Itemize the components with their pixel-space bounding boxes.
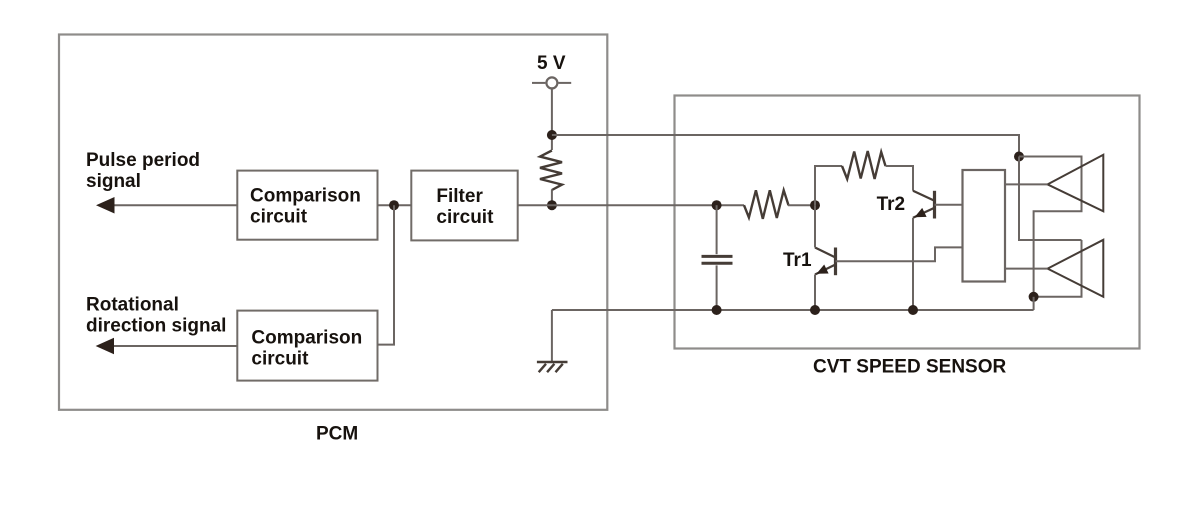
arrowhead rotational direction signal bbox=[96, 338, 114, 354]
CVT SPEED SENSOR box bbox=[675, 96, 1140, 349]
resistor R1 pull-up bbox=[540, 151, 562, 191]
node: lower right junction bbox=[1029, 292, 1039, 302]
ground bbox=[537, 362, 568, 372]
svg-text:circuit: circuit bbox=[251, 349, 309, 370]
capacitor C1 plate bottom bbox=[702, 262, 733, 265]
wire: R3 to Tr2 collector bbox=[886, 166, 914, 191]
comparison circuit box U3 bbox=[237, 311, 377, 381]
svg-text:circuit: circuit bbox=[250, 207, 308, 228]
node: top right junction bbox=[1014, 152, 1024, 162]
MRE element 1 bracket bbox=[1019, 157, 1082, 297]
MRE element 2 triangle bbox=[1048, 240, 1104, 297]
wire: Tr1 emitter down to bottom line bbox=[814, 275, 816, 311]
capacitor C1 plate top bbox=[702, 255, 733, 258]
wire: top line from branch node into sensor bbox=[552, 135, 1019, 157]
wire: comparison to filter bbox=[378, 204, 412, 206]
node: Tr2 emitter junction bbox=[908, 305, 918, 315]
wire: Tr2 emitter down to bottom line bbox=[912, 218, 914, 310]
capacitor C1 bottom lead bbox=[716, 265, 718, 310]
resistor R2 series bbox=[744, 190, 789, 219]
capacitor C1 top lead bbox=[716, 205, 718, 254]
transistor Tr1 bbox=[815, 248, 836, 276]
svg-text:Comparison: Comparison bbox=[251, 328, 362, 349]
PCM box bbox=[59, 35, 607, 410]
wire: rotational direction signal arrow line bbox=[110, 345, 237, 347]
wire: node A up to R3 bbox=[815, 166, 842, 205]
resistor R3 collector bbox=[842, 151, 886, 179]
wire: bottom common line bbox=[552, 309, 1034, 311]
MRE element 2 bracket bbox=[1034, 240, 1082, 297]
svg-text:direction signal: direction signal bbox=[86, 315, 226, 336]
transistor Tr2 bbox=[913, 191, 935, 219]
svg-text:Rotational: Rotational bbox=[86, 294, 179, 315]
filter circuit box U2 bbox=[411, 171, 517, 241]
arrowhead pulse period signal bbox=[96, 197, 115, 214]
wire: Tr2 base to block bbox=[935, 204, 963, 206]
wire: ground stub bbox=[551, 310, 553, 362]
comparison circuit box U1 bbox=[237, 171, 377, 240]
block U4 sensing IC bbox=[963, 170, 1006, 282]
svg-text:Filter: Filter bbox=[436, 186, 483, 207]
wire: 5V down to top branch node bbox=[551, 88, 553, 150]
node A bbox=[810, 200, 820, 210]
wire: pulse period signal arrow line bbox=[110, 204, 237, 206]
node: Tr1 emitter junction bbox=[810, 305, 820, 315]
node: capacitor junction on main line bbox=[712, 200, 722, 210]
wire: top junction down to lower element bbox=[1019, 157, 1082, 241]
5V terminal circle bbox=[546, 77, 557, 88]
wire: block to element 1 apex bbox=[1005, 183, 1048, 185]
5V terminal right tick bbox=[558, 82, 571, 84]
5V terminal left tick bbox=[532, 82, 545, 84]
wire: R2 to node A bbox=[788, 204, 815, 206]
wire: node A down to Tr1 collector bbox=[814, 205, 816, 247]
svg-text:Comparison: Comparison bbox=[250, 186, 361, 207]
node: R1 bottom junction bbox=[547, 200, 557, 210]
wire: branch down to lower comparison bbox=[378, 205, 395, 344]
wire: block to element 2 apex bbox=[1005, 268, 1048, 270]
wire: main signal line filter to sensor bbox=[518, 204, 744, 206]
svg-text:Tr2: Tr2 bbox=[877, 194, 906, 215]
wire: lower junction to bottom line bbox=[1033, 297, 1035, 310]
node: capacitor bottom junction bbox=[712, 305, 722, 315]
node: junction dot between comparison and filter bbox=[389, 200, 399, 210]
svg-text:5 V: 5 V bbox=[537, 53, 566, 74]
svg-text:CVT SPEED SENSOR: CVT SPEED SENSOR bbox=[813, 356, 1006, 377]
svg-text:signal: signal bbox=[86, 171, 141, 192]
node: top branch junction bbox=[547, 130, 557, 140]
svg-text:Pulse period: Pulse period bbox=[86, 150, 200, 171]
wire: Tr1 base to block bbox=[836, 247, 963, 261]
svg-text:Tr1: Tr1 bbox=[783, 250, 812, 271]
svg-text:circuit: circuit bbox=[436, 207, 494, 228]
MRE element 1 triangle bbox=[1048, 155, 1104, 212]
svg-text:PCM: PCM bbox=[316, 423, 358, 444]
wire: R1 to main line bbox=[551, 190, 553, 206]
